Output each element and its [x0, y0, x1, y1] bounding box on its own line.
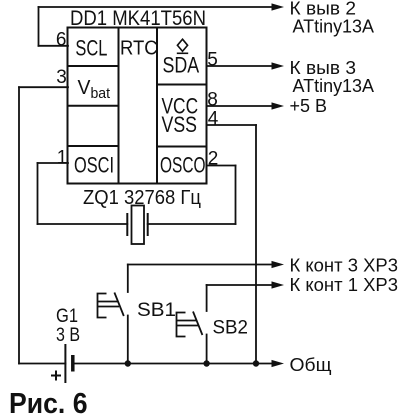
wire SB2 to K kont 1 XP3 [207, 285, 273, 311]
wire Vbat pin3 left vertical [19, 87, 68, 363]
svg-text:SCL: SCL [75, 35, 107, 60]
battery G1 [51, 344, 73, 383]
svg-text:1: 1 [57, 148, 68, 169]
arrowhead to contact 3 XP3 [272, 261, 285, 268]
svg-text:ATtiny13A: ATtiny13A [293, 76, 375, 96]
wire OSCO pin2 to crystal [148, 166, 236, 225]
svg-text:OSCO: OSCO [160, 153, 206, 178]
wire OSCI pin1 to crystal [38, 163, 128, 224]
arrowhead to contact 1 XP3 [272, 281, 285, 288]
svg-text:SDA: SDA [163, 53, 200, 78]
svg-text:8: 8 [207, 90, 218, 111]
svg-text:+5 В: +5 В [290, 96, 328, 116]
svg-text:К конт 3 ХР3: К конт 3 ХР3 [290, 255, 399, 275]
junction SB1/common [125, 360, 131, 366]
arrowhead to pin 3 ATtiny13A [272, 62, 285, 69]
svg-text:SB1: SB1 [137, 299, 176, 321]
pushbutton SB1 [98, 293, 124, 318]
svg-text:6: 6 [56, 30, 67, 51]
wire SDA pin5 to K vyv 3 [207, 65, 273, 67]
wire SB2 bottom [206, 335, 208, 364]
svg-text:ATtiny13A: ATtiny13A [293, 17, 375, 37]
chip DD1 MK41T56N outline [68, 28, 207, 184]
crystal ZQ1 [127, 206, 147, 245]
open-drain diamond on SDA [177, 39, 188, 53]
svg-text:SB2: SB2 [213, 316, 249, 338]
svg-text:К конт 1 ХР3: К конт 1 ХР3 [290, 275, 399, 295]
svg-text:RTC: RTC [120, 37, 158, 59]
wire SCL pin6 to K vyv 2 [39, 7, 273, 46]
junction SB2/common [203, 360, 209, 366]
wire SB1 bottom [127, 316, 129, 364]
svg-text:Общ: Общ [290, 354, 332, 375]
arrowhead to pin 2 ATtiny13A [272, 3, 285, 10]
svg-text:Рис. 6: Рис. 6 [9, 388, 88, 418]
svg-text:G1: G1 [56, 306, 78, 327]
svg-text:ZQ1 32768 Гц: ZQ1 32768 Гц [83, 187, 201, 209]
wire common bottom [19, 363, 273, 365]
wire VCC pin8 to +5V [207, 105, 273, 107]
svg-text:3: 3 [56, 67, 67, 88]
svg-text:2: 2 [208, 148, 219, 169]
junction VSS/common [253, 360, 259, 366]
svg-text:DD1 MK41T56N: DD1 MK41T56N [70, 7, 206, 30]
svg-text:VSS: VSS [162, 112, 198, 137]
wire VSS pin4 to common [207, 125, 257, 364]
svg-text:OSCI: OSCI [74, 153, 114, 178]
arrowhead to common [272, 360, 285, 367]
svg-text:5: 5 [207, 50, 218, 71]
pushbutton SB2 [177, 312, 203, 337]
svg-text:4: 4 [208, 109, 219, 130]
svg-text:3 В: 3 В [56, 325, 80, 346]
svg-text:К выв 3: К выв 3 [290, 58, 357, 78]
arrowhead to +5 V [272, 102, 285, 109]
wire SB1 to K kont 3 XP3 [128, 265, 273, 293]
